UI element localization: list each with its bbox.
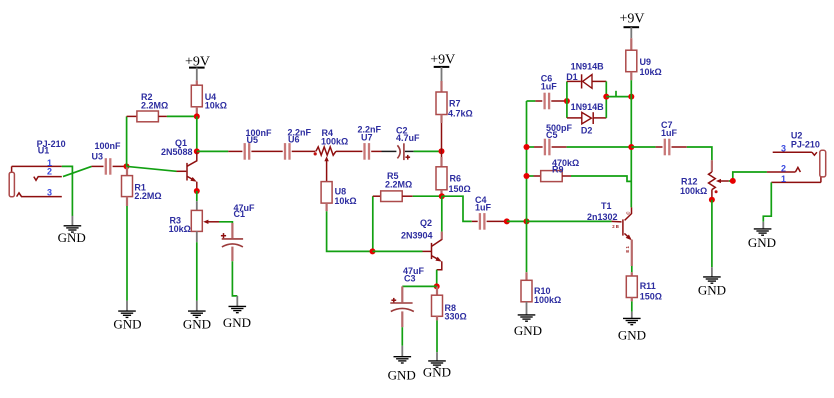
ground (U2) <box>748 222 776 250</box>
diode D1 1N914B <box>566 62 606 89</box>
svg-text:GND: GND <box>113 317 141 332</box>
svg-text:100kΩ: 100kΩ <box>534 295 561 305</box>
wire R11 to ground <box>631 301 633 311</box>
transistor Q2 2N3904 <box>401 196 442 270</box>
svg-text:GND: GND <box>223 315 251 330</box>
svg-text:+9V: +9V <box>430 53 455 68</box>
svg-text:150Ω: 150Ω <box>640 291 662 301</box>
svg-text:2.2MΩ: 2.2MΩ <box>385 179 412 189</box>
capacitor C4 1uF <box>472 195 507 230</box>
junction R6/R5/Q2 collector <box>439 193 445 199</box>
resistor R8 330 <box>432 286 467 321</box>
junction Q1 emitter / R3 <box>194 188 200 194</box>
capacitor C6 1uF <box>527 73 567 109</box>
capacitor C3 47uF electrolytic <box>390 266 424 327</box>
svg-text:2: 2 <box>47 167 52 177</box>
node A junction (C/R1/R2/Q1 base) <box>124 163 130 169</box>
+9V supply (left) <box>185 55 210 81</box>
junction C2/R7/R6 <box>439 148 445 154</box>
wire collector node to C4 <box>442 196 472 221</box>
svg-text:2.2MΩ: 2.2MΩ <box>134 191 161 201</box>
capacitor C5 500pF <box>527 123 632 155</box>
svg-text:2N5088: 2N5088 <box>161 147 193 157</box>
wire C1 to ground <box>232 261 237 296</box>
wire U7 to C2 <box>371 150 381 152</box>
svg-text:GND: GND <box>58 230 86 245</box>
svg-text:U1: U1 <box>38 146 50 156</box>
wire C3 branch <box>402 285 436 287</box>
ground (C1) <box>223 296 251 330</box>
svg-text:GND: GND <box>423 364 451 379</box>
ground (R1) <box>113 301 141 332</box>
svg-text:10kΩ: 10kΩ <box>205 101 227 111</box>
svg-text:U9: U9 <box>640 57 652 67</box>
svg-text:100kΩ: 100kΩ <box>680 186 707 196</box>
svg-text:2 B: 2 B <box>612 224 619 229</box>
junction R12 wiper <box>730 178 736 184</box>
wire R3 to ground <box>196 242 198 301</box>
svg-text:R6: R6 <box>450 174 462 184</box>
svg-text:T1: T1 <box>601 201 612 211</box>
transistor T1 2n1302 <box>587 201 632 266</box>
resistor U8 10k <box>321 182 357 212</box>
ground (R12) <box>698 267 726 297</box>
wire Q2 emitter down <box>436 270 438 287</box>
wire C3 to ground <box>401 327 403 346</box>
wire U1 pin1 to ground <box>62 166 73 216</box>
diode D2 1N914B <box>567 102 606 136</box>
svg-text:2n1302: 2n1302 <box>587 212 618 222</box>
junction diode mid <box>603 94 609 100</box>
ground (U1) <box>58 216 86 245</box>
wire R3 wiper to C1 <box>219 222 232 226</box>
resistor R10 100k <box>521 272 561 305</box>
wire main node to T1 base <box>527 220 612 222</box>
wire left feedback vertical <box>526 101 528 272</box>
junction U9 bottom <box>628 94 634 100</box>
wire diode mid to U9 node <box>606 96 631 98</box>
svg-text:4.7uF: 4.7uF <box>396 133 420 143</box>
wire U9 down through junctions <box>630 80 632 207</box>
capacitor C2 4.7uF electrolytic <box>396 125 420 160</box>
wire T1 emitter to R11 <box>631 266 633 272</box>
svg-text:PJ-210: PJ-210 <box>791 139 820 149</box>
wire R1 to ground <box>126 206 128 301</box>
resistor R6 150 <box>436 151 471 196</box>
svg-text:GND: GND <box>618 328 646 343</box>
svg-text:GND: GND <box>748 235 776 250</box>
wire R12 to ground <box>711 200 713 267</box>
wire stub tick <box>615 91 617 97</box>
connector U2 PJ-210 (output jack) <box>767 130 826 184</box>
svg-text:U7: U7 <box>361 132 373 142</box>
capacitor U3 100nF <box>92 141 127 175</box>
capacitor U6 2.2nF <box>285 128 312 160</box>
svg-text:C3: C3 <box>404 274 416 284</box>
svg-text:10kΩ: 10kΩ <box>640 67 662 77</box>
wire U6 to R4 <box>292 150 316 152</box>
wire R2 to U4 junction <box>167 115 197 117</box>
svg-text:100nF: 100nF <box>95 141 122 151</box>
capacitor U7 2.2nF <box>358 125 382 160</box>
resistor R11 150 <box>626 272 662 301</box>
svg-text:150Ω: 150Ω <box>449 184 471 194</box>
junction Q2 emitter / R8 / C3 <box>434 283 440 289</box>
resistor R2 2.2M <box>127 92 169 122</box>
svg-text:+9V: +9V <box>619 11 644 26</box>
potentiometer R4 100k <box>314 128 349 182</box>
junction R9 left <box>524 173 530 179</box>
svg-text:R7: R7 <box>449 99 461 109</box>
svg-text:1uF: 1uF <box>661 128 678 138</box>
junction R12 bottom <box>709 197 715 203</box>
+9V supply (middle) <box>430 53 455 81</box>
wire C7 to R12 <box>687 147 712 160</box>
capacitor C7 1uF <box>631 120 687 155</box>
resistor U9 10k <box>626 38 662 80</box>
svg-text:2: 2 <box>781 164 786 174</box>
svg-text:10kΩ: 10kΩ <box>334 196 356 206</box>
wire node A up to R2 <box>126 116 128 166</box>
ground (R10) <box>514 315 542 338</box>
resistor U4 10k <box>191 80 227 116</box>
wire C4 to main node <box>507 220 527 222</box>
wire diode loop left <box>566 81 568 118</box>
junction U8/R5/Q2 base <box>370 248 376 254</box>
svg-text:2.2MΩ: 2.2MΩ <box>141 101 168 111</box>
svg-text:C5: C5 <box>546 130 558 140</box>
svg-text:C: C <box>626 211 631 214</box>
svg-text:3: 3 <box>781 143 786 153</box>
svg-text:GND: GND <box>388 368 416 383</box>
svg-text:Q2: Q2 <box>420 218 432 228</box>
svg-text:1uF: 1uF <box>475 203 492 213</box>
wire U1 pin2 to C U3 <box>63 166 92 176</box>
wire junction down to Q1 collector <box>196 116 198 151</box>
wire diode loop right <box>605 81 607 118</box>
wire U2 pin1 to ground <box>763 182 771 221</box>
wire U5 to U6 <box>251 150 282 152</box>
wire Q1 emitter to R3 <box>196 191 198 201</box>
svg-text:1uF: 1uF <box>541 82 558 92</box>
svg-text:1: 1 <box>781 174 786 184</box>
wire base node to Q2 <box>373 250 423 252</box>
svg-text:4.7kΩ: 4.7kΩ <box>448 109 473 119</box>
svg-text:GND: GND <box>183 317 211 332</box>
capacitor C1 47uF electrolytic <box>221 203 255 261</box>
svg-text:330Ω: 330Ω <box>445 312 467 322</box>
ground (R8) <box>423 352 451 379</box>
svg-text:C1: C1 <box>234 209 246 219</box>
svg-text:R11: R11 <box>640 281 656 291</box>
svg-text:100kΩ: 100kΩ <box>321 136 348 146</box>
wire C2 to R7/R6 node <box>405 150 414 152</box>
resistor R9 470k <box>527 158 632 182</box>
svg-text:1N914B: 1N914B <box>571 102 605 112</box>
+9V supply (right) <box>619 11 644 38</box>
svg-text:GND: GND <box>514 323 542 338</box>
svg-text:3: 3 <box>47 187 52 197</box>
junction C5 left <box>524 144 530 150</box>
wire R10 to ground <box>526 302 528 315</box>
trimmer R3 10k <box>169 201 219 242</box>
svg-text:U6: U6 <box>288 134 300 144</box>
junction C5 right / C7 <box>628 144 634 150</box>
wire R8 to ground <box>436 320 438 352</box>
resistor R7 4.7k <box>436 81 473 151</box>
svg-text:1N914B: 1N914B <box>571 62 605 72</box>
resistor R1 2.2M <box>122 166 162 206</box>
ground (R3) <box>183 301 211 332</box>
wire node A to Q1 base <box>127 166 177 171</box>
connector U1 PJ-210 (input jack) <box>9 139 65 197</box>
svg-text:D2: D2 <box>581 125 593 135</box>
wire R12 wiper to U2 pin2 <box>729 172 767 181</box>
wire U8 to Q2 base node <box>327 211 373 251</box>
junction C6 / diode loop <box>564 98 570 104</box>
junction Q1 collector <box>194 148 200 154</box>
capacitor U5 100nF <box>228 128 272 160</box>
ground (R11) <box>618 312 646 343</box>
junction C4 out <box>504 218 510 224</box>
ground (C3) <box>388 346 416 383</box>
svg-text:R9: R9 <box>552 164 564 174</box>
wire R4 to U7 <box>336 150 363 152</box>
resistor R5 2.2M <box>373 171 442 251</box>
svg-text:U5: U5 <box>247 135 259 145</box>
junction R2/U4 <box>194 113 200 119</box>
svg-text:2N3904: 2N3904 <box>401 231 433 241</box>
transistor Q1 2N5088 <box>161 138 197 191</box>
potentiometer R12 100k <box>680 160 729 199</box>
svg-text:D1: D1 <box>566 72 578 82</box>
junction main node <box>524 218 530 224</box>
svg-text:U3: U3 <box>92 151 104 161</box>
svg-text:E 1: E 1 <box>625 246 630 253</box>
wire Q1 collector to C U5 <box>197 150 229 152</box>
svg-text:10kΩ: 10kΩ <box>169 224 191 234</box>
svg-text:GND: GND <box>698 282 726 297</box>
